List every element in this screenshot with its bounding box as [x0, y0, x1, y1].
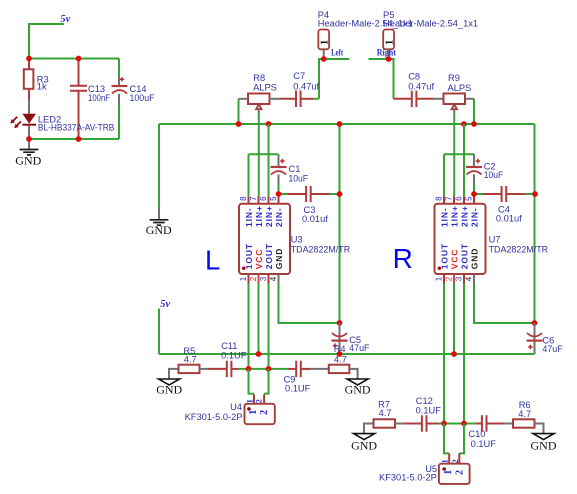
- svg-text:U4: U4: [230, 402, 242, 412]
- svg-text:1IN-: 1IN-: [440, 207, 450, 227]
- svg-text:7: 7: [444, 196, 453, 201]
- svg-text:GND: GND: [146, 223, 172, 237]
- svg-text:8: 8: [239, 196, 248, 201]
- svg-text:5: 5: [464, 196, 473, 201]
- svg-text:2IN+: 2IN+: [460, 205, 470, 227]
- svg-text:BL-HB337A-AV-TRB: BL-HB337A-AV-TRB: [38, 123, 115, 133]
- svg-text:GND: GND: [156, 383, 182, 397]
- svg-text:R8: R8: [253, 73, 265, 83]
- svg-text:0.47uf: 0.47uf: [293, 81, 319, 91]
- svg-text:1: 1: [434, 276, 443, 281]
- svg-text:1IN+: 1IN+: [254, 205, 264, 227]
- svg-text:2: 2: [249, 276, 258, 281]
- svg-text:1: 1: [239, 276, 248, 281]
- svg-text:ALPS: ALPS: [448, 83, 472, 93]
- svg-text:GND: GND: [351, 438, 377, 452]
- svg-text:2: 2: [444, 276, 453, 281]
- svg-text:GND: GND: [531, 438, 557, 452]
- svg-text:R9: R9: [448, 73, 460, 83]
- svg-text:TDA2822M/TR: TDA2822M/TR: [291, 244, 351, 254]
- svg-text:6: 6: [454, 196, 463, 201]
- svg-text:0.01uf: 0.01uf: [496, 214, 522, 224]
- svg-text:4.7: 4.7: [334, 354, 347, 364]
- svg-text:1OUT: 1OUT: [244, 243, 254, 269]
- svg-text:1: 1: [248, 410, 259, 415]
- svg-text:4: 4: [464, 276, 473, 281]
- svg-text:100uF: 100uF: [130, 93, 155, 103]
- svg-text:0.1UF: 0.1UF: [416, 405, 442, 415]
- svg-text:C10: C10: [468, 429, 485, 439]
- svg-text:4: 4: [269, 276, 278, 281]
- svg-text:C8: C8: [408, 71, 420, 81]
- svg-text:8: 8: [434, 196, 443, 201]
- svg-text:2IN+: 2IN+: [264, 205, 274, 227]
- svg-text:ALPS: ALPS: [253, 83, 277, 93]
- svg-text:100nF: 100nF: [88, 93, 110, 103]
- svg-text:10uF: 10uF: [484, 170, 504, 180]
- svg-text:10uF: 10uF: [289, 174, 309, 184]
- svg-text:5: 5: [269, 196, 278, 201]
- svg-text:3: 3: [259, 276, 268, 281]
- svg-text:Header-Male-2.54_1x1: Header-Male-2.54_1x1: [383, 19, 478, 29]
- svg-text:GND: GND: [345, 383, 371, 397]
- svg-text:2: 2: [454, 470, 465, 475]
- svg-text:3: 3: [454, 276, 463, 281]
- svg-text:2OUT: 2OUT: [264, 243, 274, 269]
- svg-text:2IN-: 2IN-: [274, 207, 284, 227]
- svg-text:4.7: 4.7: [184, 355, 197, 365]
- svg-text:6: 6: [259, 196, 268, 201]
- svg-text:2: 2: [450, 459, 460, 463]
- svg-text:U7: U7: [489, 234, 501, 244]
- svg-text:4.7: 4.7: [379, 408, 392, 418]
- svg-text:1k: 1k: [37, 81, 47, 91]
- svg-text:GND: GND: [15, 154, 41, 168]
- svg-text:0.01uf: 0.01uf: [302, 214, 328, 224]
- svg-text:1IN+: 1IN+: [450, 205, 460, 227]
- svg-text:TDA2822M/TR: TDA2822M/TR: [489, 244, 549, 254]
- svg-text:VCC: VCC: [450, 249, 460, 270]
- svg-text:1: 1: [384, 40, 395, 45]
- svg-text:U3: U3: [291, 234, 303, 244]
- svg-text:47uF: 47uF: [542, 344, 563, 354]
- svg-text:1: 1: [443, 470, 454, 475]
- svg-text:0.47uf: 0.47uf: [408, 82, 434, 92]
- svg-text:Left: Left: [331, 47, 344, 57]
- svg-text:KF301-5.0-2P: KF301-5.0-2P: [185, 412, 243, 422]
- svg-text:2OUT: 2OUT: [460, 243, 470, 269]
- svg-text:Right: Right: [377, 47, 397, 57]
- svg-text:4.7: 4.7: [518, 409, 531, 419]
- svg-text:2IN-: 2IN-: [470, 207, 480, 227]
- svg-text:1: 1: [440, 459, 450, 463]
- svg-text:GND: GND: [274, 248, 284, 270]
- svg-text:1IN-: 1IN-: [244, 207, 254, 227]
- svg-text:0.1UF: 0.1UF: [221, 350, 247, 360]
- svg-text:C7: C7: [293, 71, 305, 81]
- svg-text:0.1UF: 0.1UF: [285, 383, 311, 393]
- svg-text:R4: R4: [334, 344, 346, 354]
- svg-text:C12: C12: [416, 396, 433, 406]
- svg-text:R: R: [393, 243, 413, 274]
- svg-text:5v: 5v: [160, 299, 170, 310]
- svg-text:0.1UF: 0.1UF: [471, 439, 497, 449]
- svg-text:2: 2: [259, 410, 270, 415]
- svg-text:VCC: VCC: [254, 249, 264, 270]
- svg-text:1OUT: 1OUT: [440, 243, 450, 269]
- svg-text:2: 2: [254, 399, 264, 403]
- svg-text:47uF: 47uF: [349, 343, 370, 353]
- svg-text:L: L: [205, 245, 220, 276]
- svg-text:GND: GND: [470, 248, 480, 270]
- svg-text:7: 7: [249, 196, 258, 201]
- svg-text:KF301-5.0-2P: KF301-5.0-2P: [379, 473, 437, 483]
- svg-text:1: 1: [319, 40, 330, 45]
